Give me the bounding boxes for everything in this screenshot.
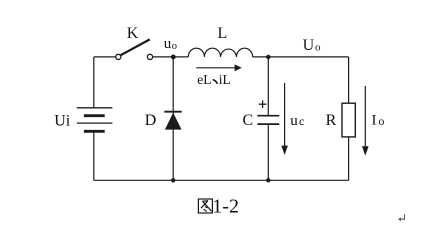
wire capacitor branch lower xyxy=(267,125,269,181)
svg-text:L: L xyxy=(218,25,228,42)
wire top-left horizontal (source to switch) xyxy=(94,56,116,58)
battery Ui xyxy=(54,108,112,132)
svg-text:R: R xyxy=(326,112,337,129)
svg-text:U: U xyxy=(303,37,315,54)
wire left vertical upper (source top) xyxy=(93,57,95,108)
arrow eL iL xyxy=(196,64,242,87)
junction node bottom capacitor xyxy=(266,178,270,182)
net label Uo xyxy=(303,37,321,54)
svg-text:u: u xyxy=(164,36,172,52)
node u0 xyxy=(164,36,177,59)
junction node bottom diode xyxy=(171,178,175,182)
wire bottom horizontal xyxy=(94,179,349,181)
svg-text:eL: eL xyxy=(197,72,211,87)
plus sign xyxy=(259,103,267,105)
diode D xyxy=(145,112,182,130)
svg-text:iL: iL xyxy=(219,72,231,87)
svg-text:K: K xyxy=(127,25,139,42)
wire resistor branch lower xyxy=(348,137,350,180)
wire resistor branch upper xyxy=(348,57,350,103)
capacitor C xyxy=(243,100,280,129)
svg-text:1-2: 1-2 xyxy=(212,196,239,218)
svg-text:D: D xyxy=(145,112,157,129)
arrow Io xyxy=(362,86,384,156)
ideographic comma xyxy=(213,80,217,83)
svg-text:c: c xyxy=(299,114,304,128)
caption 图1-2 xyxy=(198,196,239,218)
svg-text:u: u xyxy=(290,113,298,129)
svg-text:o: o xyxy=(172,41,177,52)
switch K xyxy=(116,25,153,60)
wire switch to node u0 and to inductor xyxy=(153,56,189,58)
hand-drawn hanzi tu (picture) xyxy=(198,199,212,213)
junction node top capacitor xyxy=(266,55,270,59)
svg-text:I: I xyxy=(372,113,377,129)
wire capacitor branch upper xyxy=(267,57,269,116)
wire inductor to top-right corner xyxy=(253,56,349,58)
paragraph return mark xyxy=(398,214,405,221)
arrow uc xyxy=(281,83,304,155)
svg-text:o: o xyxy=(378,114,384,128)
inductor L xyxy=(188,25,252,57)
svg-text:C: C xyxy=(243,112,254,129)
wire diode branch vertical xyxy=(172,57,174,180)
svg-text:o: o xyxy=(315,42,321,54)
svg-text:Ui: Ui xyxy=(54,112,71,129)
resistor R xyxy=(326,103,356,137)
wire left vertical lower (source bottom) xyxy=(93,131,95,180)
